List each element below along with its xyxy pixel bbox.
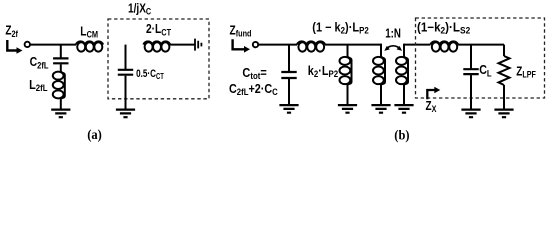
node Z2f terminal (25, 42, 30, 47)
ground (461, 110, 480, 118)
label Zf (230, 25, 252, 39)
label ZX (426, 100, 437, 114)
svg-text:C2fL: C2fL (30, 56, 49, 70)
svg-text:2·LCT: 2·LCT (146, 23, 171, 37)
wire (60, 64, 62, 71)
svg-text:ZX: ZX (426, 100, 437, 114)
wire (347, 45, 349, 57)
label b (394, 127, 409, 143)
wire (288, 79, 290, 105)
label Ctot (242, 66, 267, 81)
wire (503, 85, 505, 109)
transformer secondary winding (403, 44, 405, 57)
label L2fL (29, 78, 47, 93)
label LP2a (312, 21, 369, 36)
svg-text:Ctot=: Ctot= (242, 66, 267, 81)
inductor k2LP2 (348, 56, 352, 85)
svg-text:(1 − k2)·LP2: (1 − k2)·LP2 (312, 21, 369, 36)
transformer primary winding (380, 44, 382, 57)
ground (494, 110, 513, 118)
svg-text:1/jXC: 1/jXC (128, 3, 151, 17)
wire (458, 44, 504, 46)
capacitor 0.5CCT (118, 70, 133, 75)
label Z2f (5, 25, 18, 39)
label C2fL (30, 56, 49, 70)
svg-text:k2·LP2: k2·LP2 (308, 64, 339, 79)
wire (288, 45, 290, 72)
svg-text:1:N: 1:N (385, 27, 401, 40)
wire (125, 45, 127, 70)
wire (30, 44, 76, 46)
inductor LCM (76, 41, 103, 44)
wire (60, 99, 62, 109)
ground (51, 110, 70, 118)
svg-text:(a): (a) (87, 127, 102, 143)
wire (258, 44, 297, 46)
wire (60, 45, 62, 59)
wire (125, 76, 127, 110)
label Csum (229, 82, 278, 97)
svg-text:LCM: LCM (80, 25, 98, 39)
ground (394, 105, 413, 113)
node Zfund terminal (253, 42, 258, 47)
ground (371, 105, 390, 113)
ground (279, 105, 298, 113)
coupling arrows (386, 46, 400, 49)
arrow into Z2f port (7, 40, 17, 51)
capacitor C2fL (53, 58, 68, 63)
svg-text:L2fL: L2fL (29, 78, 47, 93)
inductor 2LCT (144, 41, 171, 44)
capacitor CL (463, 69, 478, 74)
arrow ZX (427, 90, 434, 99)
inductor (1-k2)LP2 (297, 41, 325, 44)
svg-text:Zfund: Zfund (230, 25, 252, 39)
ground (sideways) (195, 39, 201, 51)
wire (470, 45, 472, 70)
label XC (128, 3, 151, 17)
capacitor Ctot (281, 72, 296, 78)
dashed box 1/jXc (108, 19, 209, 99)
label 1N (385, 27, 401, 40)
label LCM (80, 25, 98, 39)
wire (404, 44, 431, 46)
inductor L2fL (61, 71, 65, 99)
svg-text:(b): (b) (394, 127, 409, 143)
label a (87, 127, 102, 143)
label 05C (136, 68, 164, 81)
svg-text:0.5·CCT: 0.5·CCT (136, 68, 164, 81)
svg-text:CL: CL (479, 63, 491, 78)
svg-text:ZLPF: ZLPF (516, 65, 536, 79)
wire (170, 44, 195, 46)
svg-text:(1−k2)·LS2: (1−k2)·LS2 (417, 20, 470, 36)
svg-text:C2fL+2·CC: C2fL+2·CC (229, 82, 278, 97)
resistor ZLPF (503, 45, 505, 56)
dashed box ZX (416, 18, 545, 98)
inductor (1-k2)LS2 (431, 41, 459, 44)
label kLP2 (308, 64, 339, 79)
wire (470, 75, 472, 109)
label 2LCT (146, 23, 171, 37)
wire (347, 85, 349, 105)
ground (116, 110, 135, 118)
svg-text:Z2f: Z2f (5, 25, 18, 39)
label LS2 (417, 20, 470, 36)
label CL (479, 63, 491, 78)
ground (338, 105, 357, 113)
arrow into Zfund port (233, 39, 245, 49)
wire (325, 44, 381, 46)
label ZLPF (516, 65, 536, 79)
